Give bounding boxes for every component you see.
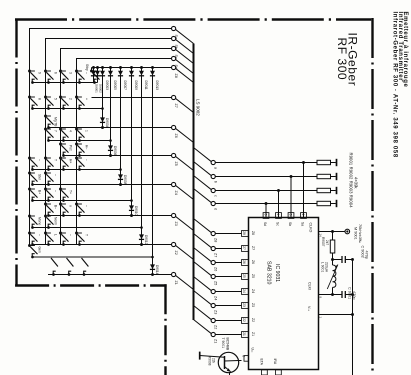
cut-line border bottom-left xyxy=(15,284,167,286)
svg-text:Z2: Z2 xyxy=(214,325,218,329)
svg-text:Z1: Z1 xyxy=(214,339,218,343)
svg-text:o: o xyxy=(69,205,73,207)
pin 23 box xyxy=(242,303,249,309)
node b right terminal xyxy=(211,174,215,178)
wire T9001 emitter down xyxy=(229,372,231,375)
switch Stby xyxy=(90,70,93,73)
svg-text:b: b xyxy=(214,181,218,183)
wire column Sd vertical xyxy=(76,59,78,245)
wire vertical x97.5 xyxy=(97,68,99,83)
svg-text:Z4: Z4 xyxy=(214,296,218,300)
node Sd left terminal xyxy=(172,56,176,60)
junction top x120 xyxy=(119,66,122,69)
transistor T9001 base bar xyxy=(224,356,226,369)
svg-text:Z1: Z1 xyxy=(174,281,178,285)
junction bottom x152 xyxy=(151,273,154,276)
svg-text:D9003: D9003 xyxy=(105,81,109,91)
diode D9004 xyxy=(100,117,105,122)
switch row y184 col 2 xyxy=(44,172,47,175)
svg-text:L 9001: L 9001 xyxy=(320,262,324,272)
inductor L9001 arrow xyxy=(327,265,338,290)
diode D9003 xyxy=(100,71,105,76)
diode D9012 xyxy=(139,234,144,239)
svg-text:5: 5 xyxy=(54,98,58,100)
svg-text:Uₓₓ: Uₓₓ xyxy=(251,348,255,354)
svg-text:26: 26 xyxy=(242,260,246,264)
wire vertical x110 xyxy=(110,68,112,156)
svg-text:Z2: Z2 xyxy=(174,251,178,255)
diode D9014 xyxy=(150,264,155,269)
svg-text:Sb: Sb xyxy=(288,222,292,226)
resistor R9001 xyxy=(317,160,331,164)
svg-text:D9008: D9008 xyxy=(123,175,127,185)
junction row y127 mid xyxy=(101,126,104,129)
junction C9002-rail xyxy=(351,258,354,261)
svg-text:D9011: D9011 xyxy=(144,81,148,90)
node a right terminal xyxy=(211,160,215,164)
svg-text:Z7: Z7 xyxy=(214,253,218,257)
node Z5 right terminal xyxy=(211,274,215,278)
svg-text:M 9001: M 9001 xyxy=(354,227,358,240)
svg-text:T 9001: T 9001 xyxy=(221,338,225,349)
switch bottom row col 2 lever xyxy=(51,258,58,267)
node Z1 right terminal xyxy=(211,332,215,336)
switch row y155 col 4 xyxy=(75,143,78,146)
junction row y200 end xyxy=(130,199,133,202)
wire R9001 right lead xyxy=(331,162,336,164)
cut-line border bottom-step vertical xyxy=(164,284,166,375)
switch row y215 col 2 xyxy=(44,203,47,206)
svg-text:T: T xyxy=(85,234,89,236)
pin 22 box xyxy=(242,318,249,324)
node Z8 right terminal xyxy=(211,231,215,235)
diode D9011 xyxy=(139,71,144,76)
svg-text:Vₛₛ: Vₛₛ xyxy=(307,306,311,312)
switch row y257 col 1 xyxy=(28,244,31,247)
svg-text:D9006: D9006 xyxy=(113,146,117,156)
wire vertical x131 xyxy=(131,68,133,216)
wire R9002 right lead xyxy=(331,176,336,178)
svg-text:Sd: Sd xyxy=(263,222,267,226)
svg-text:H+: H+ xyxy=(69,159,73,163)
svg-text:D9004: D9004 xyxy=(105,118,109,128)
wire switch row y215 xyxy=(48,215,171,217)
svg-text:Z7: Z7 xyxy=(251,246,255,250)
wire VSS xyxy=(319,314,353,316)
svg-text:C 9002: C 9002 xyxy=(360,246,364,258)
svg-text:4: 4 xyxy=(276,214,280,216)
svg-text:2: 2 xyxy=(69,98,73,100)
svg-text:B+: B+ xyxy=(38,190,42,194)
cut-line border top xyxy=(15,18,371,20)
wire switch row y169 xyxy=(32,169,120,171)
wire bus Sc horizontal to connector xyxy=(60,48,172,50)
wire switch row y127 xyxy=(48,127,171,129)
switch bottom row col 4 hook xyxy=(84,271,87,274)
junction top x97.5 xyxy=(96,66,99,69)
svg-text:Norm: Norm xyxy=(54,217,58,225)
wire column Sb vertical xyxy=(45,39,47,245)
wire switch row y244 xyxy=(32,244,171,246)
junction row y184 mid xyxy=(119,183,122,186)
pin 28 box xyxy=(242,231,249,237)
svg-text:6: 6 xyxy=(241,355,245,357)
svg-text:Z7: Z7 xyxy=(174,104,178,108)
switch row y169 col 3 xyxy=(59,157,62,160)
wire vertical x120 xyxy=(120,68,122,185)
svg-text:21: 21 xyxy=(242,332,246,336)
svg-text:Infrarot-Geber RF 300 · AT-Nr.: Infrarot-Geber RF 300 · AT-Nr. 349 398 0… xyxy=(391,12,397,158)
wire cable diagonal to Z7 right xyxy=(194,234,212,248)
wire CLKO xyxy=(319,231,345,233)
svg-text:Z1: Z1 xyxy=(251,332,255,336)
junction bottom x110 xyxy=(109,154,112,157)
wire T9001 left lead xyxy=(200,356,225,358)
transistor T9001 collector xyxy=(225,360,239,363)
svg-text:D9012: D9012 xyxy=(144,235,148,245)
switch row y108 col 1 xyxy=(28,96,31,99)
wire line b xyxy=(215,176,317,178)
wire Sc drop xyxy=(278,191,280,218)
wire Sb diagonal to cable xyxy=(175,39,193,53)
svg-text:25: 25 xyxy=(242,274,246,278)
svg-text:4: 4 xyxy=(69,130,73,132)
resistor R9002 xyxy=(317,174,331,178)
wire column Sa vertical xyxy=(29,29,31,247)
wire Z3 diagonal to cable xyxy=(175,216,193,230)
svg-text:D9013: D9013 xyxy=(155,81,159,91)
diode D9006 xyxy=(108,145,113,150)
junction row y140 end xyxy=(109,139,112,142)
pin 7 box xyxy=(262,370,268,375)
svg-text:LS 9002: LS 9002 xyxy=(196,99,201,116)
wire cable diagonal to c right xyxy=(194,176,212,190)
svg-text:–: – xyxy=(85,205,89,207)
wire line a xyxy=(215,162,317,164)
wire bus Z7 xyxy=(92,97,172,99)
svg-text:Emetteur à infrarouge: Emetteur à infrarouge xyxy=(402,12,408,88)
pin 8 box xyxy=(276,370,282,375)
measure point M9001 xyxy=(345,229,350,234)
wire cable diagonal to Z8 right xyxy=(194,219,212,233)
svg-text:470p: 470p xyxy=(365,251,369,259)
svg-text:28: 28 xyxy=(242,231,246,235)
wire Z5 diagonal to cable xyxy=(175,156,193,170)
svg-text:H–: H– xyxy=(85,145,89,149)
switch row y169 col 4 xyxy=(75,157,78,160)
resistor R9007 xyxy=(330,240,335,253)
svg-text:+: + xyxy=(85,98,89,100)
wire Z1 diagonal to cable xyxy=(175,275,193,289)
svg-text:Sa: Sa xyxy=(301,222,305,226)
switch row y244 col 2 xyxy=(44,232,47,235)
switch row y108 col 4 xyxy=(75,96,78,99)
switch row y244 col 3 xyxy=(59,232,62,235)
svg-text:Pict: Pict xyxy=(69,145,73,151)
svg-text:5: 5 xyxy=(263,214,267,216)
svg-text:B–: B– xyxy=(54,205,58,209)
diode D9008 xyxy=(118,174,123,179)
capacitor C9001 xyxy=(341,291,343,298)
switch row y215 col 3 xyxy=(59,203,62,206)
svg-text:Z8: Z8 xyxy=(251,231,255,235)
svg-text:–: – xyxy=(54,190,58,192)
node Z2 right terminal xyxy=(211,318,215,322)
svg-text:1: 1 xyxy=(85,130,89,132)
wire switch row y227 xyxy=(32,227,141,229)
node Sb left terminal xyxy=(172,36,176,40)
switch row y140 col 4 xyxy=(75,128,78,131)
node Z8 left terminal xyxy=(172,65,176,69)
cut-line border right xyxy=(371,18,373,375)
wire bus Z8 xyxy=(92,67,172,69)
wire cable diagonal to a right xyxy=(194,148,212,162)
wire Z5 to pin 25 xyxy=(215,276,241,278)
supply T-bar R9001 xyxy=(336,159,338,166)
svg-text:Z3: Z3 xyxy=(174,222,178,226)
switch row y82 col 3 xyxy=(59,70,62,73)
node Z2 left terminal xyxy=(172,242,176,246)
svg-text:–: – xyxy=(85,72,89,74)
pin 26 box xyxy=(242,260,249,266)
svg-text:6: 6 xyxy=(54,72,58,74)
svg-text:Z3: Z3 xyxy=(251,303,255,307)
junction Sb drop top xyxy=(290,175,293,178)
op IC U9031 body xyxy=(249,218,319,370)
pin 4 box xyxy=(276,213,282,219)
svg-text:3: 3 xyxy=(69,72,73,74)
svg-text:Mg TB: Mg TB xyxy=(54,117,58,127)
wire vertical x93.5 xyxy=(93,68,95,83)
switch row y200 col 2 xyxy=(44,188,47,191)
svg-text:Mono: Mono xyxy=(38,217,42,225)
svg-text:R9001 R9002 R9003 R9004: R9001 R9002 R9003 R9004 xyxy=(348,153,353,209)
svg-text:D9009: D9009 xyxy=(134,81,138,91)
junction bottom x131 xyxy=(130,214,133,217)
svg-text:SAB 3210: SAB 3210 xyxy=(266,261,272,284)
switch row y169 col 2 xyxy=(44,157,47,160)
pin 3 box xyxy=(288,213,294,219)
svg-text:Z4: Z4 xyxy=(251,289,255,293)
switch bottom row col 2 hook xyxy=(53,271,56,274)
switch bottom row col 4 lever xyxy=(82,258,89,267)
pin 21 box xyxy=(242,332,249,338)
svg-text:Infrared Transmitter: Infrared Transmitter xyxy=(397,12,403,82)
pin 24 box xyxy=(242,289,249,295)
wire osc ground rail xyxy=(352,260,354,375)
junction top x131 xyxy=(130,66,133,69)
diode D9013 xyxy=(150,71,155,76)
junction row y169 end xyxy=(119,168,122,171)
junction row y215 mid xyxy=(130,214,133,217)
switch row y169 col 1 xyxy=(28,157,31,160)
node Sc left terminal xyxy=(172,46,176,50)
switch row y244 col 1 xyxy=(28,232,31,235)
svg-text:L: L xyxy=(54,234,58,236)
svg-text:c: c xyxy=(214,195,218,197)
wire Z7 diagonal to cable xyxy=(175,98,193,112)
switch row y140 col 3 xyxy=(59,128,62,131)
svg-text:Z5: Z5 xyxy=(214,281,218,285)
switch row y227 col 2 xyxy=(44,215,47,218)
svg-text:–: – xyxy=(38,234,42,236)
switch row y227 col 1 xyxy=(28,215,31,218)
svg-text:T: T xyxy=(54,159,58,161)
svg-text:D9001: D9001 xyxy=(95,84,99,93)
svg-text:Z4: Z4 xyxy=(174,191,178,195)
svg-text:22k: 22k xyxy=(212,358,216,364)
node Z7 left terminal xyxy=(172,95,176,99)
wire Sa diagonal to cable xyxy=(175,29,193,43)
svg-text:IC 9031: IC 9031 xyxy=(274,264,280,282)
node d right terminal xyxy=(211,201,215,205)
svg-text:2k7: 2k7 xyxy=(325,240,329,245)
node Z5 left terminal xyxy=(172,153,176,157)
switch row y127 col 2 xyxy=(44,115,47,118)
wire vertical x152 xyxy=(152,68,154,275)
junction bottom x102 xyxy=(101,126,104,129)
node Z3 left terminal xyxy=(172,213,176,217)
junction Sc drop top xyxy=(277,189,280,192)
svg-text:Gen: Gen xyxy=(38,247,42,253)
wire vertical x102 xyxy=(102,68,104,128)
svg-text:Z6: Z6 xyxy=(251,260,255,264)
junction top x141 xyxy=(140,66,143,69)
wire switch row y200 xyxy=(32,200,131,202)
diode D9005 xyxy=(108,71,113,76)
wire Z2 to pin 22 xyxy=(215,320,241,322)
svg-text:R9007: R9007 xyxy=(321,237,325,247)
node Z6 left terminal xyxy=(172,125,176,129)
switch bottom row col 3 lever xyxy=(67,258,74,267)
svg-text:4×39k: 4×39k xyxy=(353,177,358,189)
wire Sc diagonal to cable xyxy=(175,49,193,63)
svg-text:CLKO: CLKO xyxy=(308,223,312,233)
svg-text:T+: T+ xyxy=(69,190,73,194)
switch row y82 col 1 xyxy=(28,70,31,73)
node Z1 left terminal xyxy=(172,272,176,276)
svg-text:8: 8 xyxy=(38,98,42,100)
wire Sa drop xyxy=(303,163,305,218)
wire Sd diagonal to cable xyxy=(175,59,193,73)
diode D9009 xyxy=(129,71,134,76)
svg-text:D9005: D9005 xyxy=(113,81,117,91)
svg-text:220µH: 220µH xyxy=(325,262,329,273)
svg-text:7: 7 xyxy=(54,130,58,132)
junction Sd drop top xyxy=(265,202,268,205)
wire cable diagonal to Z2 right xyxy=(194,306,212,320)
wire IRA stub xyxy=(277,374,279,375)
transistor T9001 body xyxy=(218,352,238,372)
supply T-bar T9001 xyxy=(199,352,201,360)
switch bottom row col 2 contact xyxy=(52,273,55,276)
wire L9001 bottom xyxy=(332,287,334,294)
svg-text:70kHz±3‰: 70kHz±3‰ xyxy=(358,224,362,243)
junction top x110 xyxy=(109,66,112,69)
node Sa left terminal xyxy=(172,26,176,30)
junction top x93.5 xyxy=(92,66,95,69)
capacitor C9002 xyxy=(333,259,343,261)
wire cable diagonal to Z5 right xyxy=(194,262,212,276)
switch row y82 col 4 xyxy=(75,70,78,73)
resistor R9003 xyxy=(317,188,331,192)
wire bus Sd horizontal to connector xyxy=(76,58,172,60)
junction bottom x120 xyxy=(119,183,122,186)
svg-text:Z3: Z3 xyxy=(214,310,218,314)
svg-text:IRA: IRA xyxy=(273,359,277,365)
svg-text:Z2: Z2 xyxy=(251,318,255,322)
inductor L9001 xyxy=(333,265,336,287)
wire switch row y257 xyxy=(32,256,152,258)
junction top x102 xyxy=(101,66,104,69)
wire bus Sa horizontal to connector xyxy=(29,28,172,30)
svg-text:D9002: D9002 xyxy=(99,84,103,93)
wire ETA stub xyxy=(263,374,265,375)
svg-text:C 9001: C 9001 xyxy=(348,287,352,299)
wire Z6 to pin 26 xyxy=(215,262,241,264)
svg-text:BC548B: BC548B xyxy=(225,338,229,351)
svg-text:Z6: Z6 xyxy=(214,267,218,271)
svg-text:23: 23 xyxy=(242,303,246,307)
wire R9007 to L9001 xyxy=(332,253,334,265)
switch bottom row col 4 contact xyxy=(83,273,86,276)
wire Z2 diagonal to cable xyxy=(175,245,193,259)
switch row y215 col 4 xyxy=(75,203,78,206)
junction CLKO-R9007 xyxy=(331,230,334,233)
wire Z8 diagonal to cable xyxy=(175,68,193,82)
wire switch row y155 xyxy=(63,155,171,157)
wire R9007 top lead xyxy=(332,232,334,241)
wire stby stub xyxy=(91,68,93,72)
junction row y108 end xyxy=(101,107,104,110)
svg-text:D9007: D9007 xyxy=(123,81,127,91)
svg-text:D9010: D9010 xyxy=(134,206,138,216)
wire line d xyxy=(215,203,317,205)
node Z4 right terminal xyxy=(211,289,215,293)
svg-text:Sc: Sc xyxy=(276,222,280,226)
svg-text:Z6: Z6 xyxy=(174,134,178,138)
junction row y227 end xyxy=(140,226,143,229)
pin 25 box xyxy=(242,274,249,280)
svg-text:–: – xyxy=(69,234,73,236)
junction VSS-rail xyxy=(351,313,354,316)
switch row y108 col 2 xyxy=(44,96,47,99)
switch row y155 col 3 xyxy=(59,143,62,146)
svg-text:3: 3 xyxy=(288,214,292,216)
svg-text:Z8: Z8 xyxy=(174,74,178,78)
transistor T9001 emitter xyxy=(225,367,231,372)
diode D9001 xyxy=(91,71,96,76)
wire Sb drop xyxy=(290,177,292,218)
node Z4 left terminal xyxy=(172,182,176,186)
svg-text:–: – xyxy=(38,159,42,161)
junction row y155 mid xyxy=(109,154,112,157)
svg-text:ETA: ETA xyxy=(260,359,264,366)
switch row y82 col 2 xyxy=(44,70,47,73)
wire row Z1 bottom xyxy=(48,274,172,276)
diode D9010 xyxy=(129,205,134,210)
junction CLKI-L9001 xyxy=(331,293,334,296)
switch row y200 col 3 xyxy=(59,188,62,191)
wire bus Sb horizontal to connector xyxy=(45,38,172,40)
wire CLKI xyxy=(319,294,343,296)
cut-line border left xyxy=(15,20,17,287)
wire vertical x141 xyxy=(141,68,143,245)
node c right terminal xyxy=(211,188,215,192)
wire column Sc vertical xyxy=(60,49,62,245)
node Z7 right terminal xyxy=(211,246,215,250)
wire Z4 to pin 24 xyxy=(215,291,241,293)
